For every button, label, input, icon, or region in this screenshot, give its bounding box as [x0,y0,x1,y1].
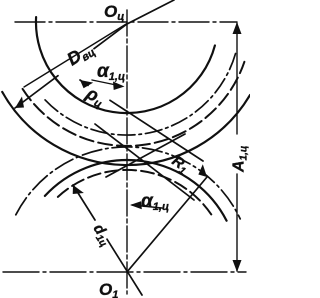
wire: line of action through pitch point [95,124,194,200]
arrowhead A1c top [233,22,242,34]
wire: top horizontal center line through Oc [15,21,237,23]
wire: A1c dimension line [236,23,238,271]
circle arc bottom outer solid (R112) [45,160,227,221]
wire: vertical center line Oc-O1 [126,10,128,294]
circle arc Dvc outer (top, R143) [2,92,250,165]
arrowhead R1 tip [195,164,211,180]
arrowhead A1c bottom [233,260,242,272]
wire: bottom horizontal center line through O1 [3,271,246,273]
circle arc top inner solid (R91) [36,17,215,113]
circle arc top dashed (R124) [23,62,245,146]
wire: d1c radial dimension line [73,185,142,295]
arrowhead alpha top [113,82,125,91]
arrowhead Dvc tip [12,96,28,112]
circle arc bottom pitch dash-dot R1 (R125) [16,147,240,219]
wire: second ray from Oc down-left [24,24,127,88]
wire: alpha bottom arrow line [132,205,162,208]
wire: rho-c line [80,80,203,161]
wire: alpha top arrow line [92,80,121,86]
arrowhead d1c tip [69,182,84,198]
arrowhead alpha bottom [130,201,142,209]
circle arc top pitch dash-dot (R113) [45,52,236,135]
wire: short chord line up-right [106,134,185,177]
wire: Dvc radial dimension line [15,0,174,108]
arrowhead rho-c tip [77,76,93,91]
circle arc bottom dashed d1c (R102) [58,170,211,215]
wire: R1 radial line from O1 at 45 deg [127,177,207,272]
